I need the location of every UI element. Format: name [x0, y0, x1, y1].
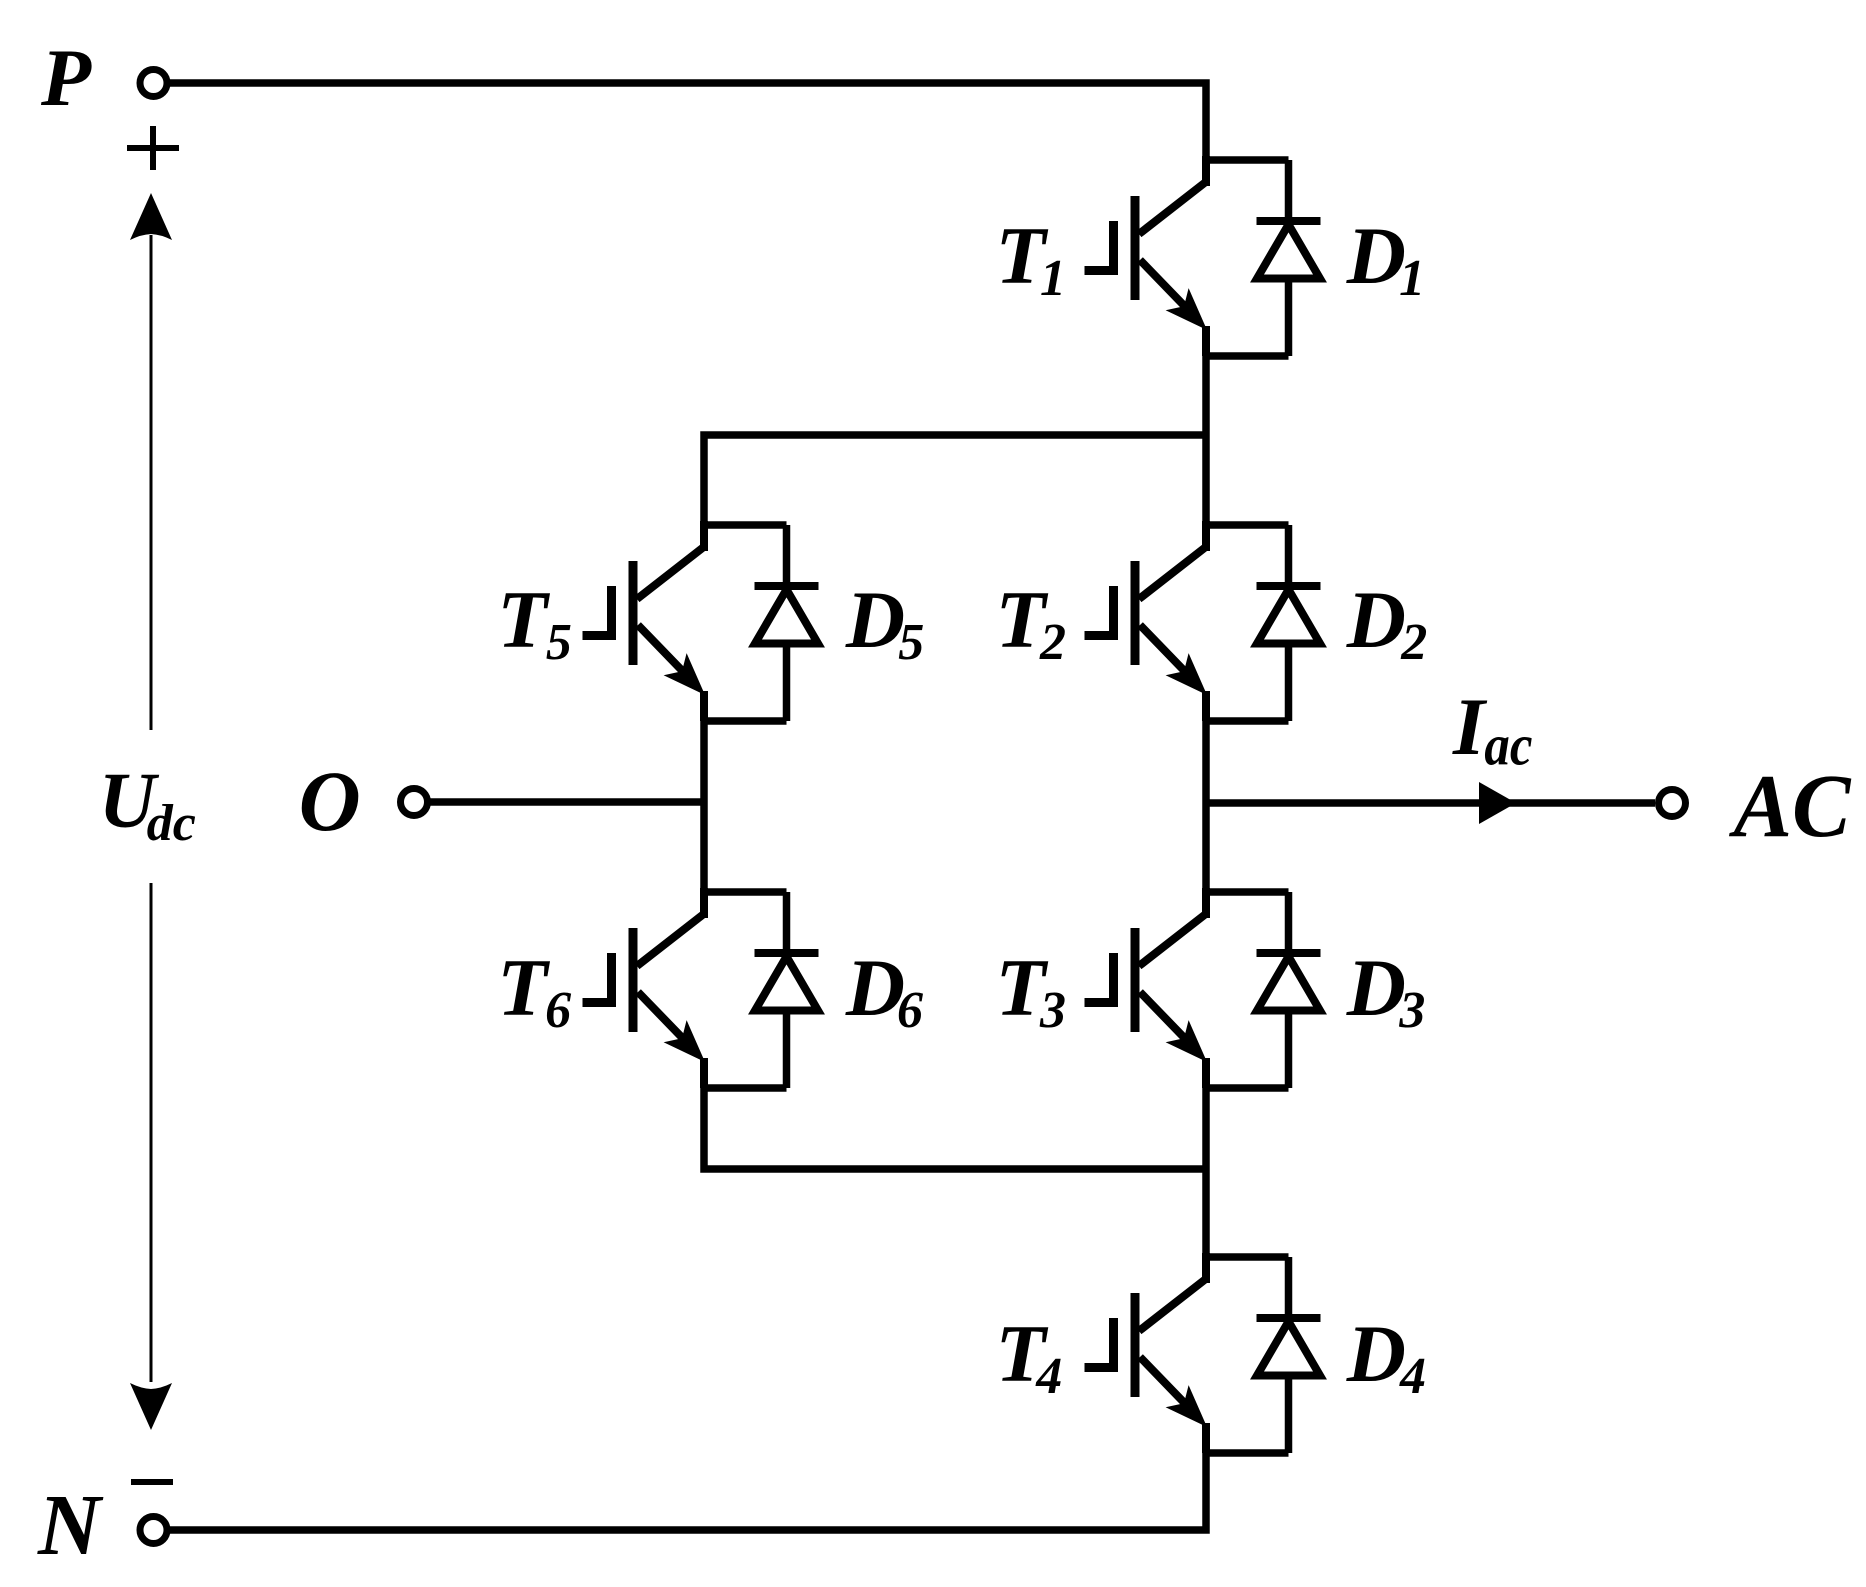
- node AC terminal circle: [1659, 790, 1686, 817]
- diode D6 (antiparallel): [755, 892, 819, 1088]
- wire clamp top: junction on main leg to T5 collector branch: [704, 435, 1206, 525]
- node O terminal circle: [401, 789, 428, 816]
- node N terminal circle: [140, 1517, 167, 1544]
- node P terminal circle: [140, 70, 167, 97]
- wire T5 emitter to T6 collector: [700, 721, 708, 892]
- Udc arrow up head: [130, 193, 172, 240]
- wire T3 emitter to T4 collector: [1202, 1088, 1210, 1257]
- transistor T4 (IGBT): [1085, 1253, 1208, 1453]
- wire O terminal to clamp midpoint: [430, 798, 704, 806]
- Udc plus sign: [127, 126, 179, 170]
- diode D1 (antiparallel): [1257, 160, 1321, 356]
- svg-text:dc: dc: [147, 795, 196, 852]
- diode D3 (antiparallel): [1257, 892, 1321, 1088]
- svg-text:1: 1: [1040, 250, 1066, 307]
- Iac current arrow head: [1479, 782, 1516, 824]
- wire T5 collector to D5 cathode: [704, 521, 787, 529]
- Udc arrow down head: [130, 1383, 172, 1430]
- wire clamp bottom: T6 emitter down and over to main leg: [704, 1088, 1206, 1169]
- svg-text:5: 5: [898, 614, 924, 671]
- wire T2 emitter to D2 anode: [1206, 717, 1289, 725]
- wire T6 emitter to D6 anode: [704, 1084, 787, 1092]
- diode D5 (antiparallel): [755, 525, 819, 721]
- svg-text:I: I: [1452, 681, 1488, 772]
- svg-text:1: 1: [1399, 250, 1425, 307]
- svg-text:AC: AC: [1729, 757, 1852, 856]
- svg-text:6: 6: [545, 982, 571, 1039]
- svg-text:3: 3: [1398, 982, 1425, 1039]
- transistor T2 (IGBT): [1085, 521, 1208, 721]
- Udc arrow shaft lower: [150, 883, 153, 1382]
- svg-text:D: D: [1346, 210, 1406, 301]
- Udc minus sign: [131, 1479, 173, 1485]
- transistor T1 (IGBT): [1085, 156, 1208, 356]
- Udc arrow shaft upper: [150, 235, 153, 730]
- wire T1 emitter to D1 anode: [1206, 352, 1289, 360]
- wire T4 collector to D4 cathode: [1206, 1253, 1289, 1261]
- wire T3 collector to D3 cathode: [1206, 888, 1289, 896]
- wire P rail: from P terminal right to top of T1 branch: [170, 83, 1206, 160]
- svg-text:T: T: [497, 942, 550, 1033]
- svg-text:2: 2: [1400, 614, 1427, 671]
- transistor T6 (IGBT clamp lower): [583, 888, 706, 1088]
- svg-text:3: 3: [1039, 982, 1066, 1039]
- transistor T3 (IGBT): [1085, 888, 1208, 1088]
- wire T5 emitter to D5 anode: [704, 717, 787, 725]
- svg-text:D: D: [845, 574, 905, 665]
- svg-text:4: 4: [1035, 1348, 1062, 1405]
- svg-text:5: 5: [546, 614, 572, 671]
- diode D2 (antiparallel): [1257, 525, 1321, 721]
- wire T6 collector to D6 cathode: [704, 888, 787, 896]
- svg-text:D: D: [1346, 942, 1406, 1033]
- svg-text:O: O: [299, 753, 361, 849]
- diode D4 (antiparallel): [1257, 1257, 1321, 1453]
- transistor T5 (IGBT clamp upper): [583, 521, 706, 721]
- svg-text:4: 4: [1399, 1348, 1426, 1405]
- wire T1 emitter to T2 collector: [1202, 356, 1210, 525]
- svg-text:T: T: [497, 574, 550, 665]
- svg-text:D: D: [1346, 1308, 1406, 1399]
- wire AC output: midpoint of leg to AC terminal: [1206, 799, 1655, 807]
- svg-text:6: 6: [897, 982, 923, 1039]
- svg-text:D: D: [1346, 574, 1406, 665]
- svg-text:P: P: [40, 32, 92, 123]
- svg-text:N: N: [37, 1476, 104, 1573]
- wire T4 emitter to D4 anode: [1206, 1449, 1289, 1457]
- wire T2 collector to D2 cathode: [1206, 521, 1289, 529]
- svg-text:ac: ac: [1484, 713, 1532, 778]
- svg-text:2: 2: [1039, 614, 1066, 671]
- wire N rail: T4 emitter down and left to N terminal: [170, 1453, 1206, 1530]
- wire T1 collector to D1 cathode: [1206, 156, 1289, 164]
- wire T3 emitter to D3 anode: [1206, 1084, 1289, 1092]
- wire T2 emitter to T3 collector: [1202, 721, 1210, 892]
